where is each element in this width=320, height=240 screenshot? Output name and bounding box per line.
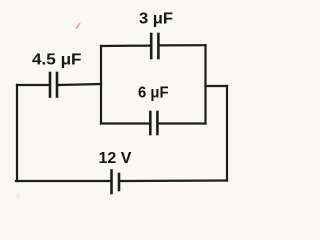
wire: inner top edge, left of C2 xyxy=(101,44,150,47)
wire: outer right vertical xyxy=(226,86,228,181)
wire: connector node B to outer right xyxy=(206,85,228,87)
wire: inner rectangle right edge xyxy=(204,45,206,123)
paper background xyxy=(0,0,244,206)
battery B1 12V long plate xyxy=(110,171,113,194)
capacitor C3 6uF left plate xyxy=(149,112,152,134)
red pen speckle xyxy=(76,23,80,29)
wire: inner bottom edge, right of C3 xyxy=(159,122,206,124)
capacitor C1 4.5uF right plate xyxy=(56,73,59,97)
svg-text:12 V: 12 V xyxy=(99,150,132,167)
battery B1 12V short plate xyxy=(118,174,121,190)
wire: bottom right of battery xyxy=(120,179,227,182)
svg-text:3 μF: 3 μF xyxy=(139,11,173,28)
wire: top-left horizontal, right of C1 to node A xyxy=(59,84,101,85)
wire: inner rectangle left edge xyxy=(100,46,102,124)
faint pink smudge xyxy=(16,194,20,198)
wire: inner top edge, right of C2 xyxy=(160,44,206,46)
wire: top-left horizontal, left of C1 xyxy=(17,84,48,86)
capacitor C1 4.5uF left plate xyxy=(49,73,52,97)
wire: outer left vertical xyxy=(16,85,18,181)
svg-text:4.5 μF: 4.5 μF xyxy=(32,52,82,69)
svg-text:6 μF: 6 μF xyxy=(138,85,169,102)
capacitor C2 3uF left plate xyxy=(150,34,153,58)
capacitor C3 6uF right plate xyxy=(156,112,159,134)
wire: inner bottom edge, left of C3 xyxy=(101,122,149,124)
capacitor C2 3uF right plate xyxy=(157,34,160,58)
wire: bottom left of battery xyxy=(16,180,110,182)
